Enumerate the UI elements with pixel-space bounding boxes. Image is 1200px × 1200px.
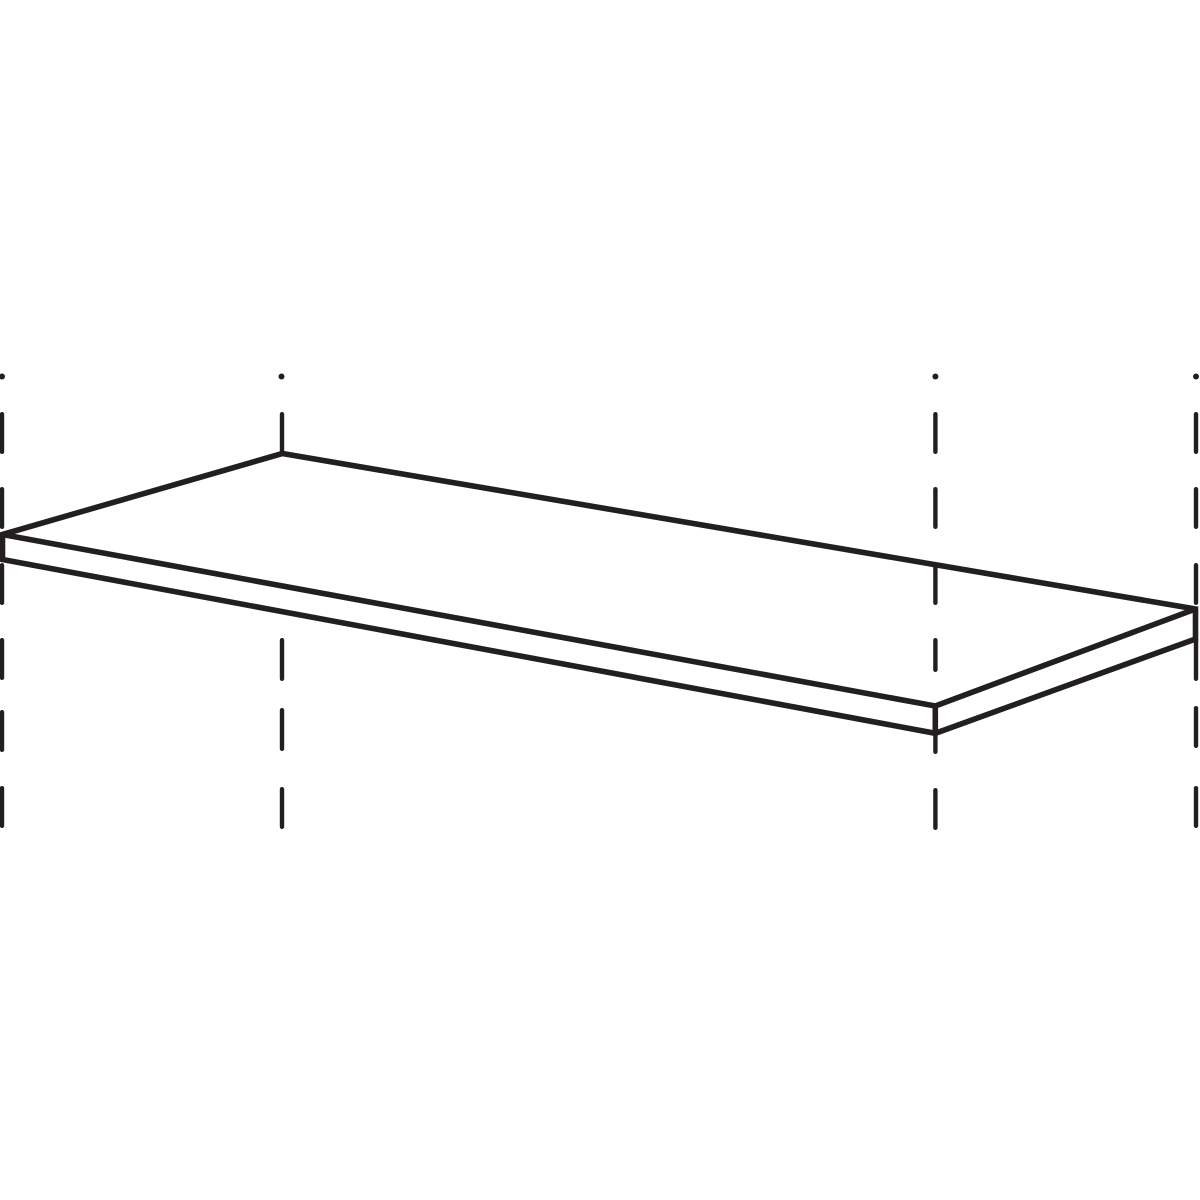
shelf front corner thickness edge [932, 706, 938, 733]
shelf top face front edges [3, 535, 1196, 707]
dashed guide line 4 (right, x=1196) [1193, 374, 1199, 826]
dashed guide line 3 (x=935) under-shelf segments [932, 374, 938, 828]
dashed line 3 segments drawn over shelf face [933, 565, 937, 670]
dashed guide line 1 (left, x=2) [0, 374, 5, 826]
dashed guide line 2 (x=282) [279, 374, 285, 827]
shelf board silhouette (white-filled) [3, 454, 1196, 734]
